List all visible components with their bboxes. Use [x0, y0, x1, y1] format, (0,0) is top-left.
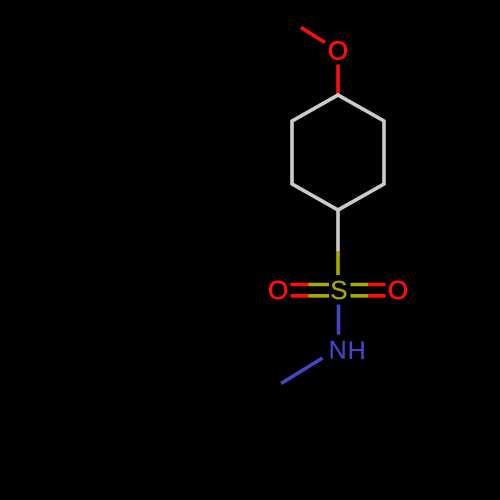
svg-text:O: O — [328, 35, 348, 65]
svg-text:N: N — [329, 337, 347, 365]
svg-text:H: H — [348, 337, 366, 365]
svg-text:S: S — [330, 275, 347, 305]
svg-text:O: O — [388, 275, 408, 305]
svg-text:O: O — [268, 275, 288, 305]
